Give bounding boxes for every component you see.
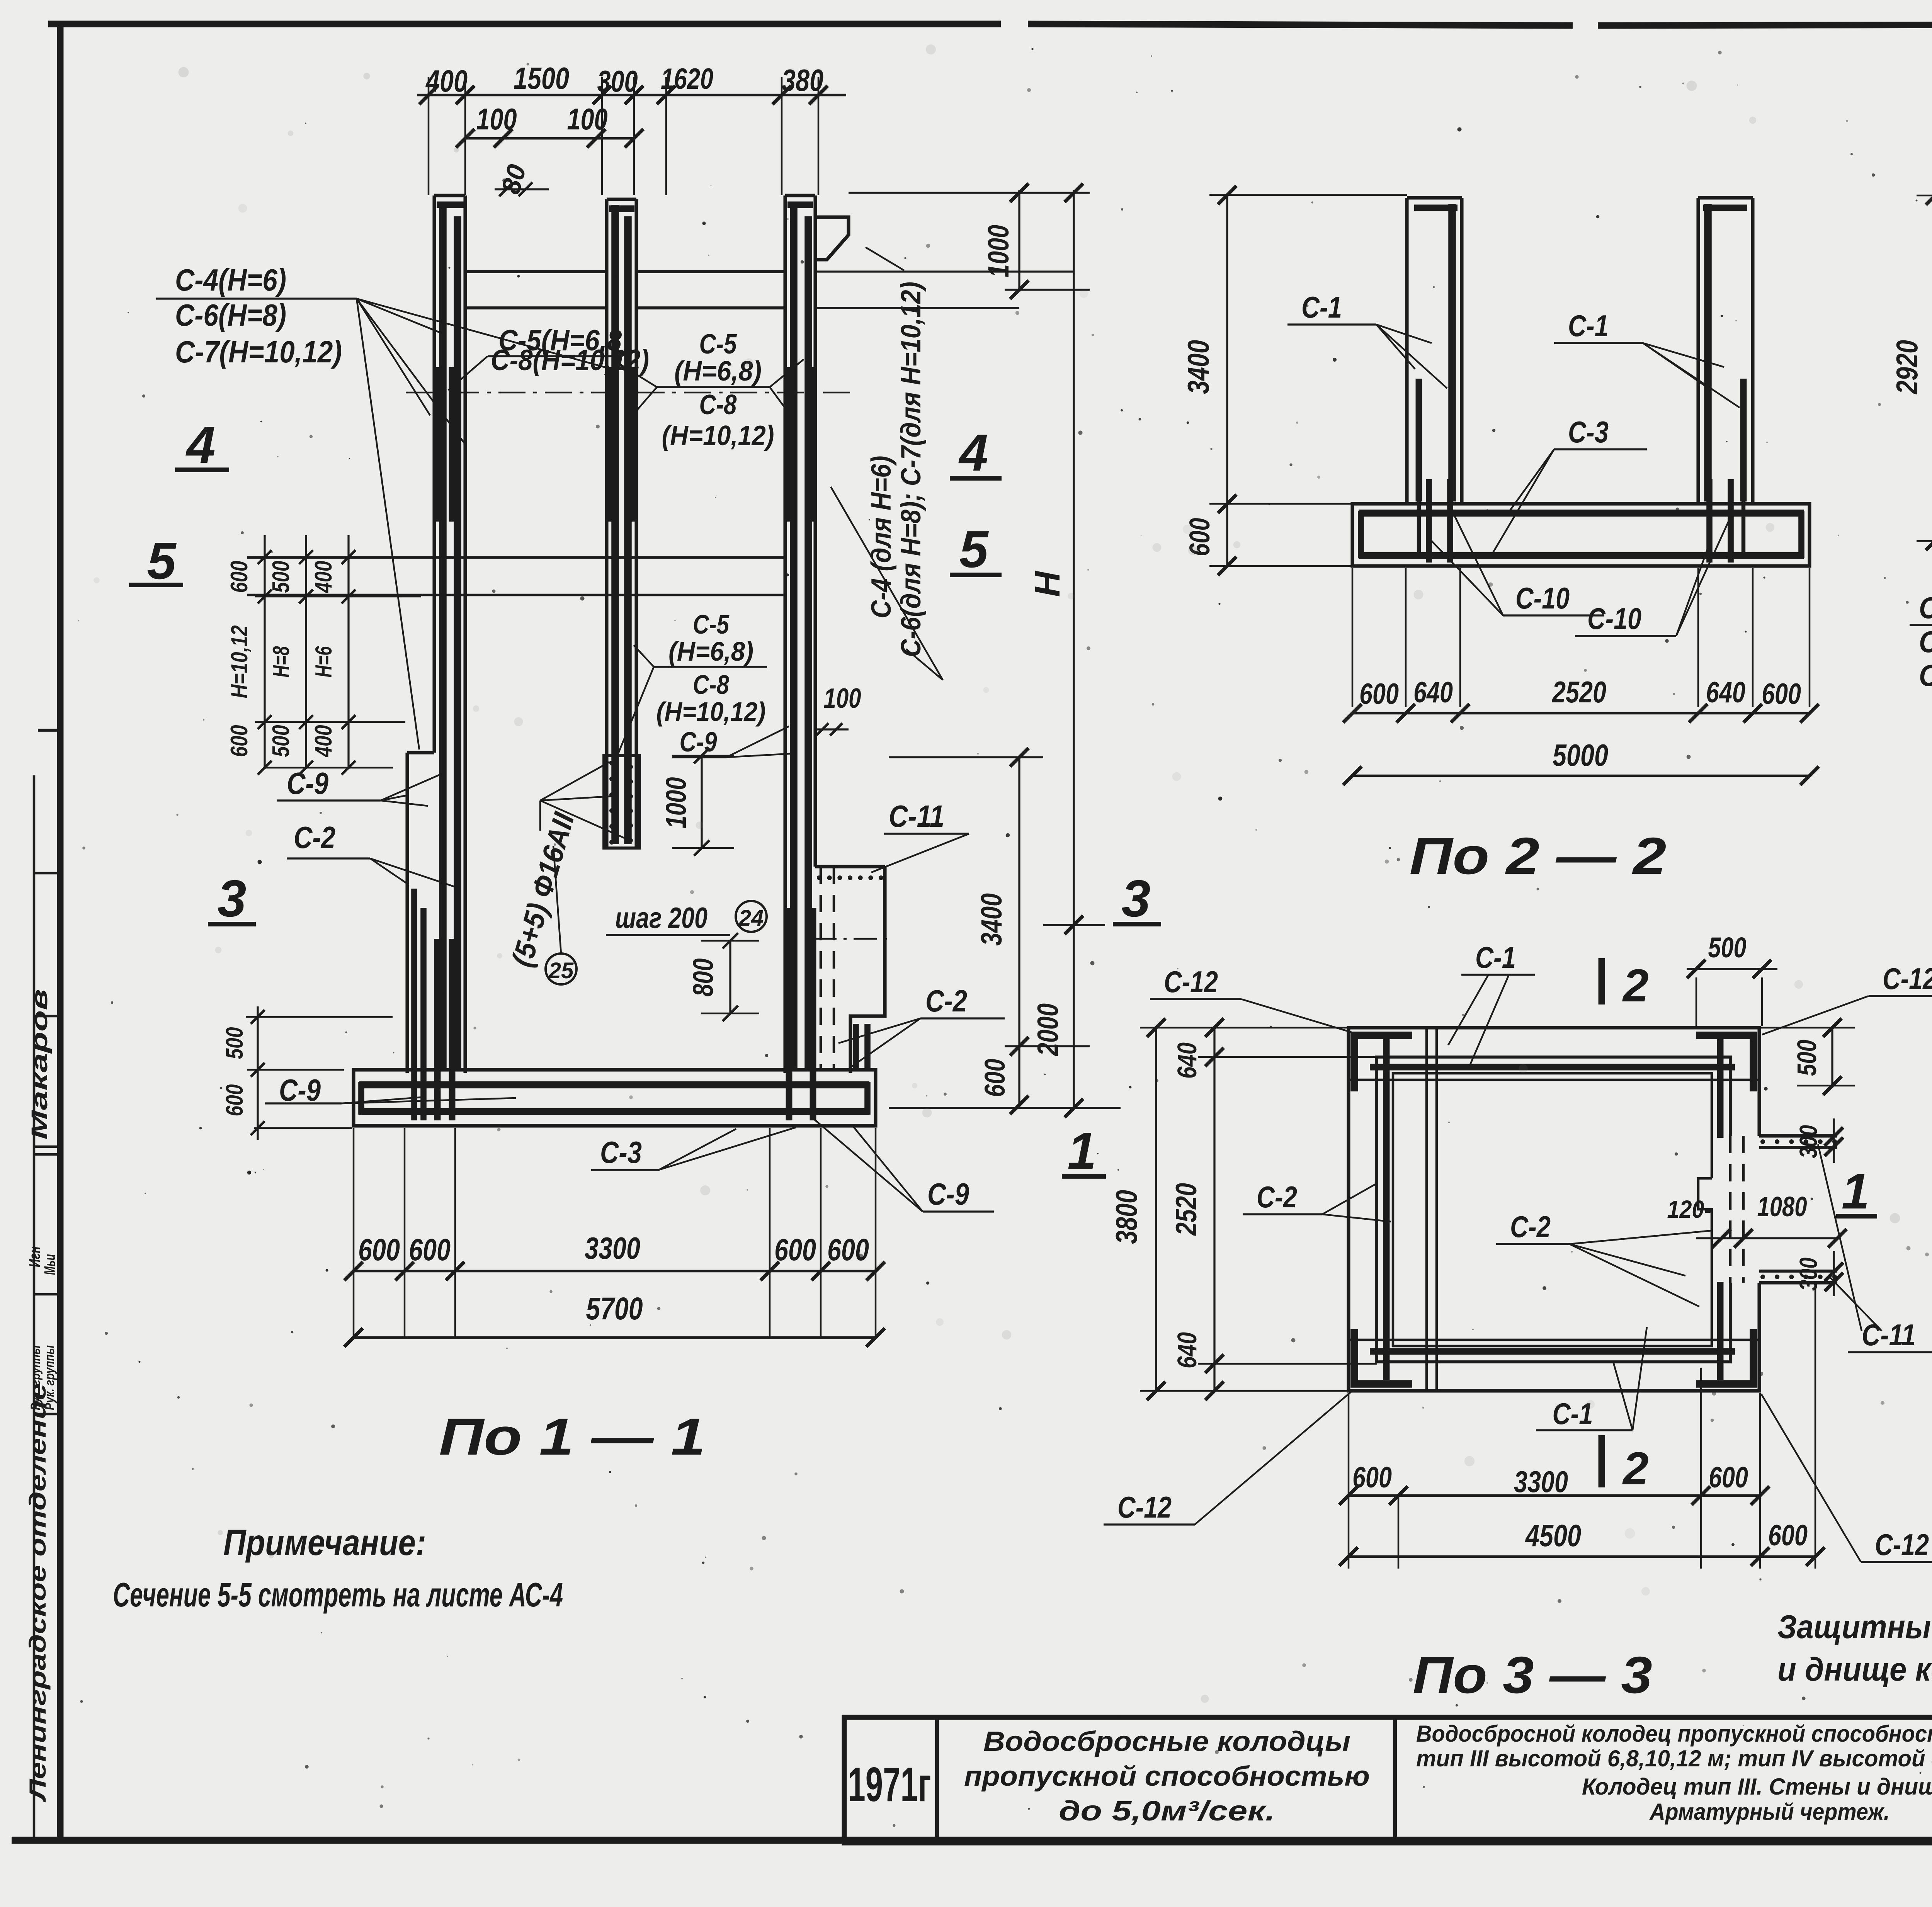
svg-text:4: 4 [958,423,988,482]
svg-text:3800: 3800 [1109,1190,1143,1244]
svg-text:С-3: С-3 [1568,415,1609,449]
svg-text:1000: 1000 [982,225,1015,277]
svg-text:По 3 — 3: По 3 — 3 [1413,1646,1652,1704]
svg-text:600: 600 [1359,678,1399,710]
svg-text:3300: 3300 [585,1231,640,1265]
svg-text:5: 5 [959,520,989,578]
svg-text:С-10: С-10 [1515,581,1570,615]
svg-text:640: 640 [1413,676,1453,709]
svg-text:(5+5) Ф16АII: (5+5) Ф16АII [505,809,581,970]
svg-text:600: 600 [358,1232,400,1267]
svg-text:С-3: С-3 [600,1135,642,1169]
svg-text:С-8: С-8 [693,670,729,700]
svg-text:С-9: С-9 [279,1073,321,1107]
svg-text:С-2: С-2 [925,984,967,1018]
svg-text:3: 3 [217,869,246,928]
svg-text:2520: 2520 [1551,675,1606,709]
svg-text:С-6(для Н=8); С-7(для Н=10,12): С-6(для Н=8); С-7(для Н=10,12) [896,282,927,657]
svg-text:Ленинградское отделение: Ленинградское отделение [25,1383,51,1802]
svg-text:до 5,0м³/сек.: до 5,0м³/сек. [1059,1796,1275,1827]
svg-text:600: 600 [226,725,253,757]
svg-text:3300: 3300 [1514,1465,1568,1499]
svg-text:800: 800 [687,959,719,997]
svg-text:600: 600 [827,1232,869,1267]
svg-text:300: 300 [1794,1125,1822,1158]
svg-text:400: 400 [425,64,468,98]
svg-text:5000: 5000 [1553,738,1608,772]
svg-text:1620: 1620 [661,63,713,95]
svg-text:С-9: С-9 [927,1177,969,1211]
svg-text:Арматурный чертеж.: Арматурный чертеж. [1649,1799,1890,1825]
svg-text:Примечание:: Примечание: [223,1522,426,1563]
svg-text:С-8: С-8 [699,389,737,420]
svg-text:400: 400 [310,725,337,758]
svg-text:5700: 5700 [586,1291,643,1326]
svg-text:(Н=10,12): (Н=10,12) [656,697,766,727]
svg-text:С-5: С-5 [699,329,737,360]
svg-text:500: 500 [268,561,294,593]
svg-text:С-12: С-12 [1117,1490,1172,1524]
svg-text:С-7 (Н=10,12): С-7 (Н=10,12) [1919,658,1932,692]
svg-text:600: 600 [226,561,253,593]
svg-text:Защитный слой бетона для ар: Защитный слой бетона для арматуры в стен… [1777,1609,1932,1645]
svg-text:500: 500 [1792,1040,1822,1076]
svg-text:шаг 200: шаг 200 [615,902,707,935]
svg-text:С-7(Н=10,12): С-7(Н=10,12) [175,335,342,369]
svg-text:1080: 1080 [1757,1191,1807,1222]
svg-text:С-12: С-12 [1875,1528,1929,1562]
svg-text:640: 640 [1706,676,1745,709]
svg-text:(Н=6,8): (Н=6,8) [668,636,753,666]
svg-text:2920: 2920 [1890,340,1924,395]
svg-text:По 2 — 2: По 2 — 2 [1410,827,1667,885]
svg-text:2: 2 [1622,960,1649,1011]
svg-text:600: 600 [774,1232,816,1267]
svg-text:Н=6: Н=6 [311,646,337,677]
svg-text:600: 600 [1352,1461,1392,1494]
svg-text:Сечение 5-5 смотреть на ли: Сечение 5-5 смотреть на листе АС-4 [113,1576,563,1614]
svg-text:Н=8: Н=8 [268,646,294,677]
svg-text:Колодец тип III. Стены и: Колодец тип III. Стены и днище. [1582,1774,1932,1800]
svg-text:24: 24 [738,906,764,931]
svg-text:600: 600 [979,1059,1011,1097]
svg-text:С-5: С-5 [693,609,730,639]
svg-text:3400: 3400 [1181,340,1215,394]
svg-text:25: 25 [548,958,574,983]
svg-text:С-11: С-11 [889,799,944,833]
svg-text:500: 500 [221,1027,248,1059]
svg-text:Н: Н [1028,570,1067,597]
svg-text:Водосбросной колодец пропускно: Водосбросной колодец пропускной способно… [1416,1721,1932,1747]
svg-text:С-1: С-1 [1301,290,1342,324]
svg-text:640: 640 [1172,1332,1202,1368]
svg-text:С-2: С-2 [1510,1210,1551,1244]
svg-text:300: 300 [1794,1258,1822,1291]
svg-text:пропускной способностью: пропускной способностью [964,1761,1370,1792]
svg-text:600: 600 [1768,1519,1808,1552]
svg-text:Макаров: Макаров [27,989,52,1140]
svg-text:(Н=10,12): (Н=10,12) [662,420,774,451]
svg-text:300: 300 [597,64,638,98]
svg-text:С-12: С-12 [1883,962,1932,996]
svg-text:С-2: С-2 [1257,1180,1297,1214]
svg-text:тип III высотой 6,8,10,12 м; т: тип III высотой 6,8,10,12 м; тип IV высо… [1416,1746,1932,1771]
svg-text:Н=10,12: Н=10,12 [226,625,252,699]
svg-text:100: 100 [476,102,517,136]
svg-text:С-10: С-10 [1587,602,1641,636]
svg-text:400: 400 [310,561,337,594]
svg-text:1: 1 [1842,1163,1869,1219]
svg-text:По 1 — 1: По 1 — 1 [439,1407,706,1466]
svg-text:Игн: Игн [26,1246,43,1267]
svg-text:С-1: С-1 [1553,1397,1593,1431]
svg-text:2520: 2520 [1170,1183,1203,1236]
svg-text:С-9: С-9 [680,727,717,758]
svg-text:С-4(Н=6): С-4(Н=6) [175,263,286,297]
svg-text:С-12: С-12 [1164,965,1218,999]
svg-text:1: 1 [1067,1122,1096,1180]
svg-text:4: 4 [185,416,215,474]
svg-text:С-1: С-1 [1568,309,1609,343]
svg-text:С-2: С-2 [294,820,335,855]
svg-text:500: 500 [268,725,294,757]
svg-text:1000: 1000 [660,777,692,829]
svg-text:80: 80 [496,161,532,197]
svg-text:4500: 4500 [1525,1518,1581,1553]
svg-text:120-: 120- [1667,1195,1712,1223]
svg-text:100: 100 [824,683,861,714]
svg-text:Мьи: Мьи [41,1254,58,1275]
svg-text:Водосбросные колодцы: Водосбросные колодцы [983,1726,1350,1757]
svg-text:С-1: С-1 [1475,940,1516,974]
svg-text:С-6(Н=8): С-6(Н=8) [175,298,286,332]
svg-text:С-4 (Н=6): С-4 (Н=6) [1919,591,1932,625]
svg-text:2000: 2000 [1032,1003,1065,1057]
svg-text:5: 5 [147,532,177,590]
svg-text:3400: 3400 [975,893,1008,946]
svg-text:600: 600 [221,1084,248,1117]
svg-text:1971г: 1971г [848,1758,931,1812]
svg-text:600: 600 [1762,678,1801,710]
svg-text:640: 640 [1172,1042,1202,1079]
svg-text:3: 3 [1121,869,1150,928]
svg-text:и днище колодца - 30 мм.: и днище колодца - 30 мм. [1777,1651,1932,1688]
svg-text:С-6 (Н=8): С-6 (Н=8) [1919,625,1932,659]
svg-text:2: 2 [1622,1443,1649,1494]
svg-text:600: 600 [409,1232,451,1267]
svg-text:380: 380 [782,63,823,97]
svg-text:500: 500 [1708,931,1747,964]
svg-text:1500: 1500 [514,61,569,95]
svg-text:С-11: С-11 [1862,1318,1916,1352]
svg-text:С-9: С-9 [287,766,328,801]
svg-text:600: 600 [1709,1461,1748,1494]
